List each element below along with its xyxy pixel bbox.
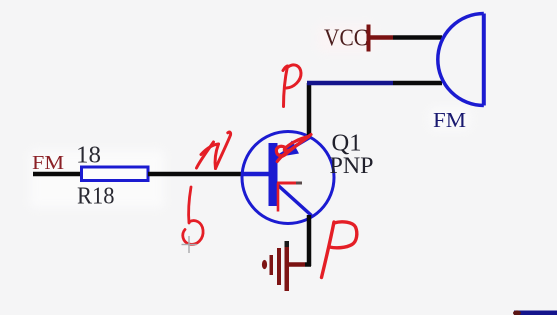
VCC stub wire (dark red) <box>370 35 393 40</box>
base lead (blue) <box>241 172 270 177</box>
wire: navy to speaker (black part) <box>393 81 442 86</box>
emitter arrow (blue, points into bar - PNP) <box>278 141 299 158</box>
wire: collector up to corner <box>307 83 312 137</box>
cursor crosshair (faint gray) <box>182 236 198 253</box>
annotation: red N (near base wire) <box>197 132 231 168</box>
annotation: red mark on bar (k shape) <box>277 183 296 212</box>
speaker FM (half-circle) <box>438 14 484 106</box>
wire: corner to ground <box>305 262 311 267</box>
wire: resistor to transistor base <box>148 172 242 177</box>
annotation: red P (bottom, near ground) <box>322 222 357 278</box>
svg-text:R18: R18 <box>77 184 115 210</box>
svg-text:FM: FM <box>433 108 466 132</box>
dark tip of red mark <box>296 182 302 185</box>
svg-text:FM: FM <box>32 152 64 174</box>
svg-text:VCC: VCC <box>324 25 368 52</box>
collector diagonal (upper) <box>276 137 311 158</box>
annotation: red arrow scribble on emitter arrow <box>276 135 311 162</box>
transistor Q1 circle <box>242 132 334 224</box>
svg-text:18: 18 <box>76 143 101 169</box>
annotation: red P (top, near collector) <box>283 65 301 107</box>
resistor R18 <box>82 167 149 181</box>
bottom-right navy bar <box>514 311 557 315</box>
ground <box>285 246 290 291</box>
wire: FM input to resistor <box>33 172 81 177</box>
wire: corner to speaker (navy part) <box>307 81 393 86</box>
svg-text:PNP: PNP <box>330 153 374 178</box>
VCC power pin bar <box>367 25 371 52</box>
base bar <box>269 143 278 206</box>
wire: VCC to speaker (black) <box>393 35 442 40</box>
emitter diagonal (lower) <box>276 184 312 216</box>
annotation: red b (below wire) <box>183 187 203 244</box>
wire: emitter down <box>307 215 312 266</box>
